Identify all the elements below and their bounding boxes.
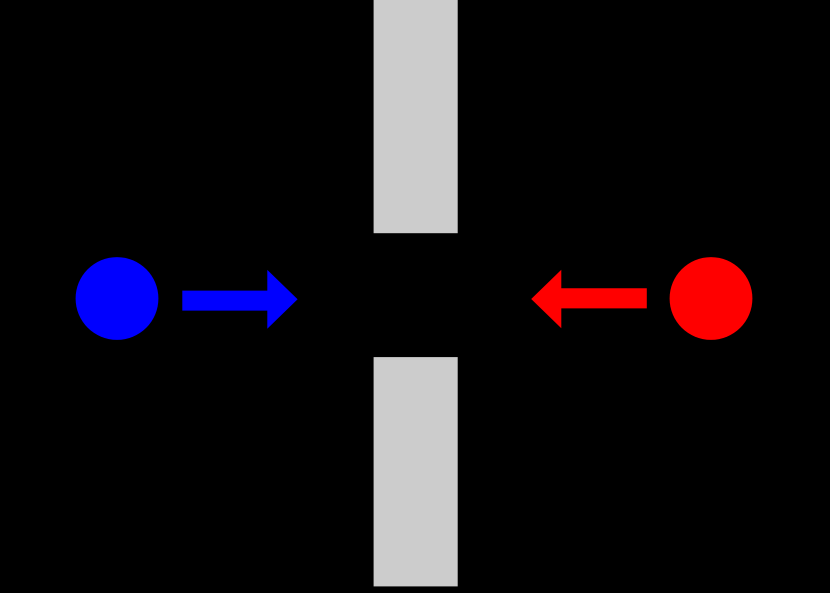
wall upper segment xyxy=(374,0,458,233)
red arrow (leftward) xyxy=(531,270,647,329)
wall lower segment xyxy=(374,357,458,586)
blue particle xyxy=(76,257,159,340)
blue arrow (rightward) xyxy=(182,270,297,329)
red particle xyxy=(670,257,753,340)
